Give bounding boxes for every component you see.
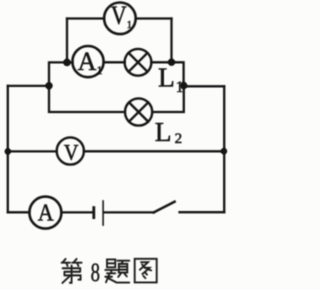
- svg-text:1: 1: [97, 63, 103, 77]
- wire top loop left horizontal: [67, 17, 104, 19]
- battery positive plate: [102, 201, 104, 225]
- wire node B to left rail: [8, 85, 49, 87]
- svg-text:L: L: [158, 62, 175, 93]
- node A: [63, 59, 71, 67]
- svg-text:1: 1: [176, 79, 184, 96]
- node F: [221, 148, 228, 155]
- wire top loop right vertical: [170, 19, 172, 63]
- wire switch right contact: [180, 211, 225, 213]
- wire A1 to lamp L1: [104, 61, 125, 63]
- caption char Di: [62, 259, 82, 283]
- wire V to node F: [84, 150, 224, 152]
- svg-text:A: A: [78, 47, 97, 76]
- ammeter A: [29, 197, 61, 229]
- node C: [168, 59, 175, 66]
- wire row2 from node A to ammeter A1: [67, 61, 73, 63]
- voltmeter V: [57, 137, 84, 164]
- node E: [5, 148, 12, 155]
- wire node D down to lamp L2 branch: [152, 86, 184, 113]
- svg-text:V: V: [111, 3, 127, 31]
- svg-text:V: V: [64, 140, 79, 165]
- wire left rail vertical: [7, 86, 9, 212]
- svg-text:L: L: [155, 116, 172, 147]
- wire A to battery: [61, 211, 92, 213]
- wire node C to node D: [172, 62, 184, 85]
- wire right rail vertical: [223, 86, 225, 212]
- caption char Tu: [135, 259, 157, 283]
- svg-text:1: 1: [127, 20, 132, 31]
- lamp L1: [125, 49, 152, 76]
- wire node E to voltmeter V: [8, 150, 57, 152]
- voltmeter V1: [104, 2, 136, 34]
- wire top loop left vertical: [66, 19, 68, 63]
- lamp L2: [125, 98, 152, 125]
- node B: [45, 82, 52, 89]
- battery negative plate: [92, 208, 95, 218]
- caption char Ti: [105, 259, 129, 282]
- wire bottom left to ammeter A: [8, 211, 30, 213]
- wire node D to right rail: [184, 85, 225, 87]
- wire battery to switch: [104, 211, 154, 213]
- wire top loop right horizontal: [136, 17, 172, 19]
- svg-text:A: A: [38, 199, 54, 226]
- caption: 第 8 题图: [62, 258, 157, 287]
- switch lever: [154, 202, 175, 213]
- wire node A step down to node B: [49, 62, 67, 85]
- wire L1 to node C: [151, 61, 171, 63]
- svg-text:8: 8: [91, 258, 100, 287]
- ammeter A1: [72, 46, 103, 77]
- wire L2 to node B step: [49, 86, 125, 112]
- svg-text:2: 2: [175, 131, 183, 147]
- node D: [180, 82, 188, 90]
